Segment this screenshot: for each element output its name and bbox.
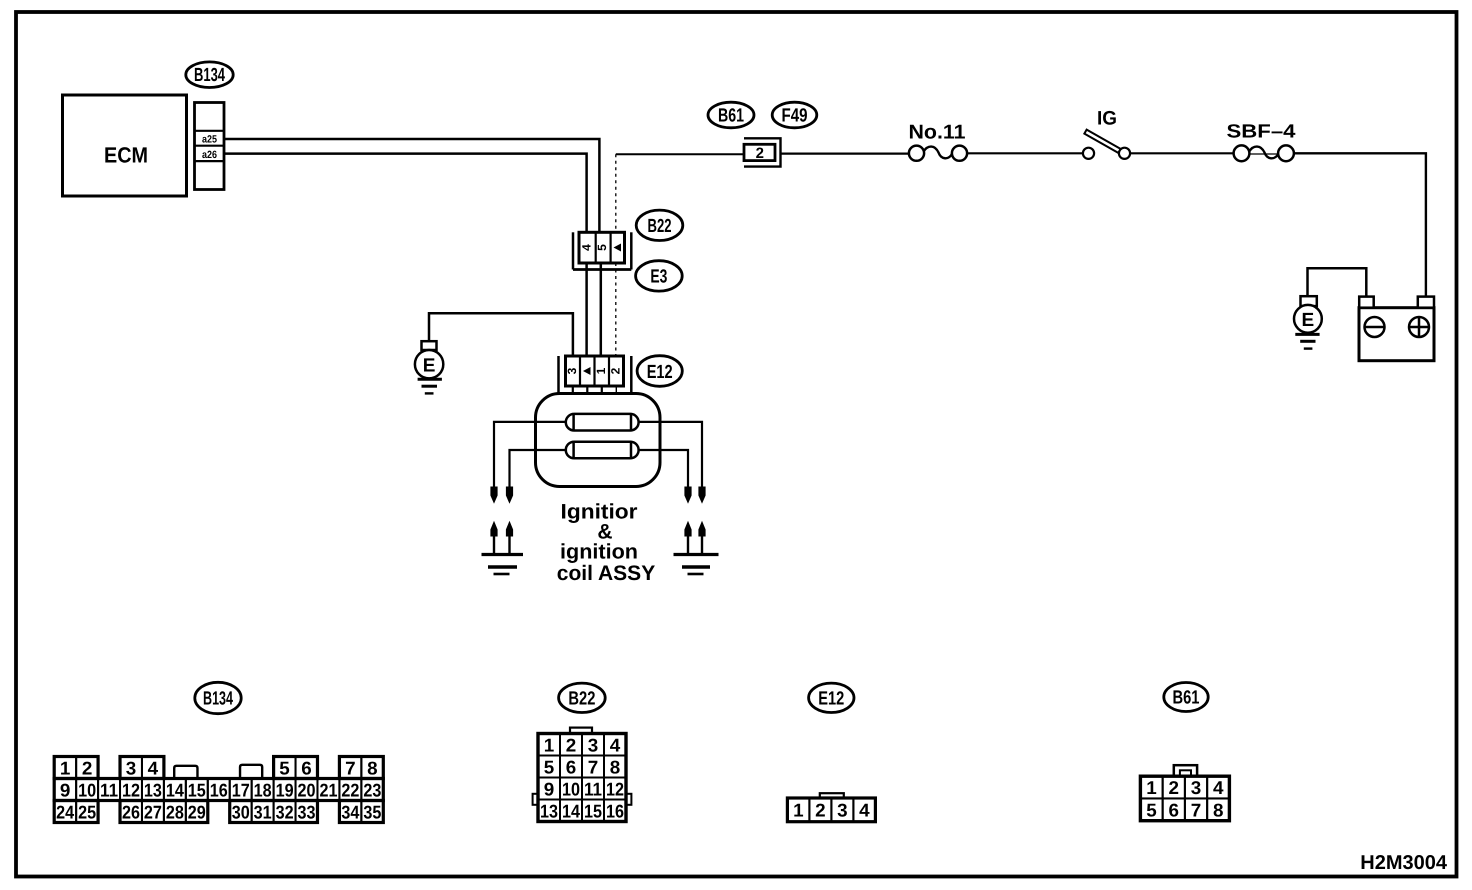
label Ignitor and ignition coil ASSY [557, 500, 655, 585]
ignitor and ignition coil ASSY box [536, 394, 661, 487]
svg-text:B22: B22 [568, 689, 595, 710]
svg-text:22: 22 [341, 779, 359, 800]
wire SBF-4 to battery positive [1294, 153, 1426, 296]
svg-text:20: 20 [298, 779, 316, 800]
svg-text:3: 3 [1191, 777, 1202, 798]
ground symbol (right spark plugs) [674, 555, 719, 575]
svg-text:5: 5 [544, 756, 555, 777]
svg-text:13: 13 [144, 779, 162, 800]
svg-text:12: 12 [606, 778, 624, 799]
svg-text:3: 3 [588, 734, 599, 755]
ignition switch IG [1083, 107, 1130, 158]
connector E12 inline box [566, 356, 624, 386]
svg-text:35: 35 [363, 801, 381, 822]
svg-text:14: 14 [562, 800, 581, 821]
svg-text:11: 11 [100, 779, 118, 800]
svg-text:3: 3 [126, 757, 137, 778]
svg-text:16: 16 [606, 800, 624, 821]
svg-text:1: 1 [544, 734, 555, 755]
wire B22 to E12 (right, thin) [615, 263, 617, 356]
wire ECM a26 to B22 pin (lower) [224, 154, 587, 233]
wire B22 to E12 (left) [585, 263, 588, 356]
svg-text:coil ASSY: coil ASSY [557, 562, 655, 585]
wire battery negative to ground E [1308, 268, 1367, 296]
svg-text:28: 28 [166, 801, 184, 822]
wire B22 to E12 (middle) [600, 263, 603, 356]
svg-text:E12: E12 [818, 689, 844, 710]
wire IG to SBF-4 [1130, 152, 1234, 154]
connector B134 (ECM pins a25/a26) [195, 103, 225, 190]
E12 pin numbers (rotated) [565, 367, 623, 375]
svg-text:4: 4 [859, 800, 870, 821]
svg-text:3: 3 [565, 367, 579, 374]
label E3 [636, 261, 683, 291]
svg-text:14: 14 [166, 779, 185, 800]
connector E12 pin grid [787, 793, 875, 822]
svg-text:26: 26 [122, 801, 140, 822]
svg-text:11: 11 [584, 778, 602, 799]
connector B22 pin grid [533, 728, 632, 822]
svg-text:9: 9 [60, 779, 71, 800]
svg-text:7: 7 [1191, 799, 1202, 820]
svg-text:7: 7 [588, 756, 599, 777]
svg-text:4: 4 [580, 244, 594, 251]
svg-text:6: 6 [566, 756, 577, 777]
svg-text:10: 10 [78, 779, 96, 800]
svg-text:17: 17 [232, 779, 250, 800]
ground symbol (left E) [418, 379, 442, 393]
svg-text:15: 15 [188, 779, 206, 800]
wire coil2 right output [639, 450, 688, 488]
svg-text:27: 27 [144, 801, 162, 822]
wire coil1 right output [639, 422, 702, 488]
svg-text:B22: B22 [648, 216, 672, 237]
svg-text:30: 30 [232, 801, 250, 822]
svg-text:H2M3004: H2M3004 [1360, 852, 1448, 874]
connector B61 pin grid [1140, 765, 1229, 821]
spark gap arrows (left pair, up) [490, 521, 513, 554]
svg-text:18: 18 [254, 779, 272, 800]
svg-text:2: 2 [756, 145, 764, 162]
svg-text:1: 1 [60, 757, 71, 778]
ground symbol (battery E) [1295, 334, 1319, 348]
svg-text:29: 29 [188, 801, 206, 822]
svg-text:32: 32 [276, 801, 294, 822]
svg-text:SBF–4: SBF–4 [1227, 121, 1296, 142]
wire F49 to fuse No.11 [781, 153, 909, 155]
svg-text:E: E [1302, 310, 1315, 331]
svg-text:5: 5 [595, 244, 609, 251]
B22 pin numbers (rotated) [580, 244, 621, 252]
svg-text:B61: B61 [1173, 688, 1200, 709]
label E12 (inline) [637, 356, 682, 387]
wire coil1 left output [494, 422, 566, 488]
svg-text:F49: F49 [782, 106, 808, 127]
svg-text:ECM: ECM [104, 143, 148, 168]
ignition coil 2 (bottom) [566, 442, 639, 459]
label B61 (pin diagram) [1164, 683, 1208, 712]
svg-text:4: 4 [148, 757, 159, 778]
svg-text:15: 15 [584, 800, 602, 821]
svg-text:25: 25 [78, 801, 96, 822]
svg-text:23: 23 [363, 779, 381, 800]
wire coil2 left output [510, 450, 566, 488]
svg-text:2: 2 [1169, 777, 1180, 798]
E12 connector bracket [559, 356, 632, 393]
svg-text:12: 12 [122, 779, 140, 800]
ground E terminal (left) [415, 341, 443, 378]
svg-text:33: 33 [298, 801, 316, 822]
svg-text:6: 6 [301, 757, 312, 778]
wire stubs E12 to coil assy [573, 386, 617, 395]
connector B134 pin grid [54, 757, 383, 823]
svg-text:4: 4 [1213, 777, 1224, 798]
label E12 (pin diagram) [809, 683, 854, 712]
fusible link SBF-4 [1227, 121, 1296, 161]
spark gap arrows (right pair, up) [684, 521, 705, 554]
svg-text:8: 8 [367, 757, 378, 778]
svg-text:2: 2 [815, 800, 826, 821]
svg-text:1: 1 [1146, 777, 1157, 798]
svg-text:1: 1 [594, 367, 608, 374]
svg-text:B61: B61 [718, 106, 744, 127]
fuse No.11 [909, 122, 968, 161]
svg-text:31: 31 [254, 801, 272, 822]
svg-text:4: 4 [610, 734, 621, 755]
label B134 (pin diagram) [195, 682, 241, 713]
wire ground E to E12 pin 1 [429, 313, 573, 356]
svg-text:10: 10 [562, 778, 580, 799]
svg-text:2: 2 [608, 367, 622, 374]
svg-text:34: 34 [341, 801, 360, 822]
svg-text:B134: B134 [203, 689, 233, 710]
svg-text:5: 5 [1146, 799, 1157, 820]
battery [1359, 297, 1434, 361]
svg-text:E: E [423, 355, 436, 376]
svg-text:2: 2 [566, 734, 577, 755]
ECM box [63, 95, 187, 196]
svg-text:1: 1 [793, 800, 804, 821]
wire fuse No.11 to IG switch [967, 152, 1083, 154]
spark output arrows (left pair, down) [490, 487, 513, 504]
svg-text:2: 2 [82, 757, 93, 778]
svg-text:8: 8 [1213, 799, 1224, 820]
svg-text:E3: E3 [650, 267, 667, 288]
label F49 [772, 102, 817, 128]
svg-text:5: 5 [279, 757, 290, 778]
svg-text:16: 16 [210, 779, 228, 800]
svg-text:7: 7 [345, 757, 356, 778]
svg-text:8: 8 [610, 756, 621, 777]
svg-text:No.11: No.11 [909, 122, 966, 144]
svg-text:6: 6 [1169, 799, 1180, 820]
figure number H2M3004 [1360, 852, 1448, 874]
E3 connector bracket [573, 232, 631, 269]
ignition coil 1 (top) [566, 414, 639, 431]
ground symbol (left spark plugs) [482, 555, 524, 575]
connector B22/E3 inline box [579, 232, 625, 263]
svg-text:3: 3 [837, 800, 848, 821]
svg-text:21: 21 [319, 779, 337, 800]
svg-text:19: 19 [276, 779, 294, 800]
label B22 [636, 210, 683, 240]
label B134 [186, 62, 233, 88]
wire ignition power branch (thin) up to F49 [616, 154, 744, 232]
svg-text:B134: B134 [194, 65, 225, 86]
ground E terminal (battery) [1294, 296, 1322, 332]
svg-text:IG: IG [1097, 107, 1117, 129]
svg-text:13: 13 [540, 800, 558, 821]
label B22 (pin diagram) [559, 683, 606, 712]
svg-text:E12: E12 [647, 362, 673, 383]
svg-text:a25: a25 [202, 133, 217, 145]
label B61 [708, 102, 754, 128]
svg-text:a26: a26 [202, 149, 217, 161]
svg-text:9: 9 [544, 778, 555, 799]
svg-text:24: 24 [56, 801, 75, 822]
wire ECM a25 to B22 pin (upper) [224, 139, 599, 232]
svg-text:ignition: ignition [560, 540, 638, 563]
connector B61/F49 inline (pin 2) [744, 138, 781, 166]
spark output arrows (right pair, down) [684, 487, 705, 504]
